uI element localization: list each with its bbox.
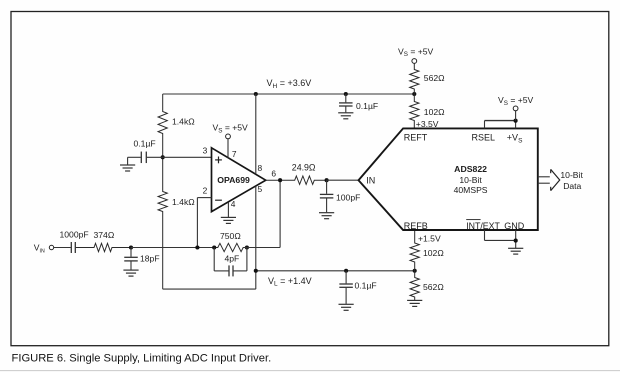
svg-text:5: 5 bbox=[258, 184, 263, 194]
svg-text:ADS822: ADS822 bbox=[454, 164, 487, 174]
svg-text:562Ω: 562Ω bbox=[424, 73, 445, 83]
svg-text:INT/EXT: INT/EXT bbox=[466, 221, 500, 231]
svg-text:0.1µF: 0.1µF bbox=[134, 138, 156, 148]
svg-text:10-Bit: 10-Bit bbox=[459, 175, 482, 185]
svg-text:3: 3 bbox=[203, 146, 208, 156]
svg-text:40MSPS: 40MSPS bbox=[454, 185, 488, 195]
svg-text:102Ω: 102Ω bbox=[424, 107, 445, 117]
svg-text:RSEL: RSEL bbox=[472, 133, 496, 143]
svg-text:1000pF: 1000pF bbox=[60, 230, 89, 240]
svg-text:+1.5V: +1.5V bbox=[418, 234, 441, 244]
svg-text:Data: Data bbox=[563, 181, 581, 191]
svg-text:8: 8 bbox=[258, 163, 263, 173]
svg-text:1.4kΩ: 1.4kΩ bbox=[172, 116, 195, 126]
svg-text:0.1µF: 0.1µF bbox=[356, 101, 378, 111]
svg-text:562Ω: 562Ω bbox=[423, 282, 444, 292]
svg-text:0.1µF: 0.1µF bbox=[355, 280, 377, 290]
svg-text:GND: GND bbox=[504, 221, 525, 231]
svg-text:4pF: 4pF bbox=[225, 254, 240, 264]
svg-text:102Ω: 102Ω bbox=[423, 248, 444, 258]
svg-text:100pF: 100pF bbox=[336, 192, 360, 202]
svg-text:4: 4 bbox=[231, 199, 236, 209]
svg-text:7: 7 bbox=[232, 149, 237, 159]
svg-text:OPA699: OPA699 bbox=[217, 175, 250, 185]
svg-text:6: 6 bbox=[271, 169, 276, 179]
svg-text:18pF: 18pF bbox=[140, 253, 160, 263]
svg-text:10-Bit: 10-Bit bbox=[560, 170, 583, 180]
svg-text:REFB: REFB bbox=[404, 221, 428, 231]
svg-text:2: 2 bbox=[203, 185, 208, 195]
svg-text:750Ω: 750Ω bbox=[220, 231, 241, 241]
svg-text:REFT: REFT bbox=[404, 133, 428, 143]
svg-text:374Ω: 374Ω bbox=[94, 230, 115, 240]
svg-text:24.9Ω: 24.9Ω bbox=[292, 163, 316, 173]
svg-text:FIGURE 6. Single Supply, Limit: FIGURE 6. Single Supply, Limiting ADC In… bbox=[12, 352, 272, 364]
svg-text:IN: IN bbox=[366, 176, 375, 186]
svg-text:1.4kΩ: 1.4kΩ bbox=[172, 197, 195, 207]
